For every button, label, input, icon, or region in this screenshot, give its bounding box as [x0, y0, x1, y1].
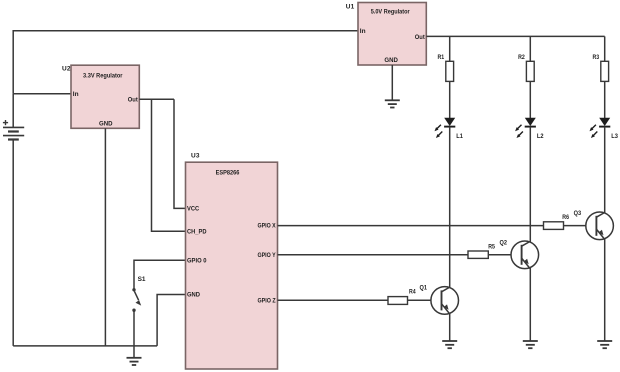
wire Out node to U3 CH_PD: [152, 99, 186, 231]
wire rail to R2: [529, 36, 531, 61]
svg-text:GND: GND: [99, 120, 113, 127]
wire U2 Out node: [139, 98, 174, 100]
svg-text:5.0V Regulator: 5.0V Regulator: [371, 9, 410, 16]
wire Q2 emitter to ground: [529, 268, 531, 341]
wire R4 to Q1 base: [408, 299, 431, 301]
wire R1 to L1: [449, 81, 451, 118]
resistor R3: [593, 54, 609, 82]
wire Out node to U3 VCC: [174, 99, 186, 208]
resistor R6: [544, 214, 570, 230]
ground under Q1: [442, 341, 457, 348]
wire U1 GND pin down: [391, 65, 393, 100]
wire switch to ground: [133, 310, 135, 358]
svg-text:GPIO Y: GPIO Y: [258, 252, 277, 259]
regulator U2 3.3V: [62, 65, 139, 128]
svg-text:GPIO Z: GPIO Z: [258, 297, 276, 304]
svg-text:L1: L1: [456, 133, 463, 140]
svg-text:Q2: Q2: [500, 239, 508, 246]
svg-text:GND: GND: [384, 57, 398, 64]
wire L1 to Q1 collector: [449, 127, 451, 288]
svg-text:R3: R3: [593, 54, 600, 61]
IC U3 ESP8266: [186, 153, 278, 370]
svg-text:U3: U3: [191, 153, 200, 160]
svg-text:GND: GND: [187, 292, 200, 299]
transistor Q2: [500, 239, 539, 268]
wire battery positive to U2 In: [13, 94, 71, 128]
svg-text:CH_PD: CH_PD: [187, 228, 207, 235]
wire U3 GPIO Y to R5: [278, 254, 469, 256]
svg-text:R5: R5: [488, 243, 495, 250]
resistor R1: [438, 54, 454, 82]
svg-text:Q3: Q3: [574, 210, 582, 217]
battery B1: [3, 120, 24, 140]
svg-text:GPIO 0: GPIO 0: [187, 257, 207, 264]
wire rail to R3: [604, 36, 606, 61]
svg-text:GPIO X: GPIO X: [258, 223, 277, 230]
regulator U1 5.0V: [346, 3, 427, 66]
ground under Q2: [523, 341, 538, 348]
svg-text:In: In: [360, 28, 366, 35]
svg-text:VCC: VCC: [187, 206, 199, 213]
wire R6 to Q3 base: [564, 225, 587, 227]
transistor Q1: [420, 284, 459, 314]
svg-text:Out: Out: [415, 34, 426, 41]
wire Q3 emitter to ground: [604, 239, 606, 341]
switch S1: [132, 276, 146, 312]
wire U3 GPIO 0 to switch: [134, 260, 186, 290]
svg-text:3.3V Regulator: 3.3V Regulator: [83, 72, 123, 79]
svg-text:R1: R1: [438, 54, 445, 61]
svg-text:L3: L3: [611, 133, 618, 140]
svg-text:U1: U1: [346, 4, 355, 11]
LED L2: [515, 118, 544, 140]
resistor R5: [468, 243, 495, 258]
ground under U1: [385, 100, 400, 107]
resistor R2: [518, 54, 534, 82]
svg-text:R2: R2: [518, 54, 525, 61]
svg-text:Q1: Q1: [420, 284, 428, 291]
wire R3 to L3: [604, 81, 606, 118]
wire U2 GND to bottom rail: [104, 128, 106, 346]
wire top rail from battery to U1 In: [13, 31, 358, 94]
svg-text:In: In: [73, 91, 79, 98]
svg-text:U2: U2: [62, 65, 71, 72]
wire U1 Out top rail: [426, 35, 604, 37]
transistor Q3: [574, 210, 614, 239]
wire Q1 emitter to ground: [449, 314, 451, 341]
wire U3 GND to bottom rail: [157, 295, 185, 346]
wire bottom ground rail: [13, 345, 157, 347]
wire rail to R1: [449, 36, 451, 61]
ground under switch: [127, 358, 142, 365]
wire L3 to Q3 collector: [604, 127, 606, 214]
svg-text:Out: Out: [128, 97, 139, 104]
wire U3 GPIO X to R6: [278, 225, 544, 227]
resistor R4: [388, 288, 416, 304]
LED L1: [435, 118, 464, 140]
wire R2 to L2: [529, 81, 531, 118]
svg-text:L2: L2: [537, 133, 544, 140]
wire battery negative down to bottom rail: [12, 140, 14, 346]
svg-text:R4: R4: [409, 288, 416, 295]
svg-text:ESP8266: ESP8266: [216, 170, 240, 177]
wire R5 to Q2 base: [488, 254, 511, 256]
LED L3: [590, 118, 619, 140]
wire U3 GPIO Z to R4: [278, 299, 389, 301]
svg-text:R6: R6: [562, 214, 569, 221]
svg-text:S1: S1: [138, 276, 146, 283]
ground under Q3: [597, 341, 612, 348]
wire L2 to Q2 collector: [529, 127, 531, 243]
